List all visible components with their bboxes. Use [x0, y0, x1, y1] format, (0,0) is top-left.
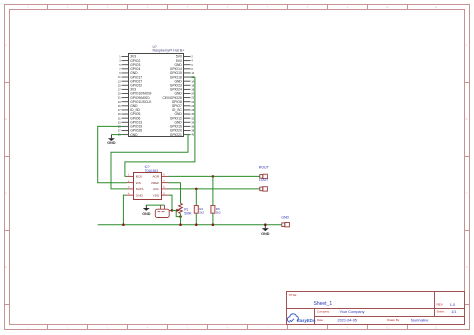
connector U? pin 17 3V3 — [118, 88, 136, 92]
svg-text:VDD: VDD — [153, 193, 160, 197]
op-amp IC? TDA1543 labels — [145, 165, 159, 173]
connector U? pin 39 GND — [118, 133, 138, 137]
wire VDD to wiper node — [169, 195, 173, 210]
svg-text:GND: GND — [142, 212, 151, 216]
wire AOR to ROUT — [169, 175, 260, 177]
connector U? pin 9 GND — [119, 71, 138, 75]
connector U? pin 33 GPIO13 — [118, 120, 142, 124]
connector U? pin 27 ID_SD — [118, 108, 141, 112]
svg-text:GND: GND — [107, 141, 116, 145]
svg-text:500K: 500K — [184, 212, 192, 216]
ground symbol on bus — [261, 225, 270, 237]
svg-text:GPIO7: GPIO7 — [172, 104, 182, 108]
svg-text:3V3: 3V3 — [130, 88, 136, 92]
jack J? pin 3 — [169, 209, 172, 211]
svg-text:GPIO23: GPIO23 — [170, 83, 182, 87]
svg-text:1.0: 1.0 — [450, 303, 455, 307]
connector LOUT pin — [260, 187, 268, 191]
svg-text:2k2: 2k2 — [216, 211, 221, 215]
jack J? pin 2 — [164, 205, 166, 209]
svg-text:ID_SD: ID_SD — [130, 108, 140, 112]
connector U? pin 16 GPIO23 — [170, 83, 195, 87]
title block Drawn By — [387, 318, 429, 322]
connector U? pin 38 GPIO20 — [170, 129, 195, 133]
svg-text:GPIO9/MISO: GPIO9/MISO — [130, 96, 150, 100]
wire IC GND to bus — [123, 195, 126, 225]
svg-text:GND: GND — [174, 120, 182, 124]
connector U? pin 35 GPIO19 — [118, 125, 142, 129]
svg-text:GPIO2: GPIO2 — [130, 59, 140, 63]
connector U? pin 29 GPIO5 — [118, 112, 141, 116]
connector U? pin 37 GPIO26 — [118, 129, 142, 133]
svg-text:GPIO3: GPIO3 — [130, 63, 140, 67]
junction ground symbol on bus — [264, 223, 267, 226]
svg-text:GND: GND — [130, 71, 138, 75]
connector U? RaspberryPi Hat B+ reference label — [153, 45, 185, 53]
svg-text:Date:: Date: — [317, 318, 324, 322]
connector U? pin 13 GPIO27 — [118, 79, 142, 83]
connector U? pin 26 GPIO7 — [172, 104, 195, 108]
junction wiper tie — [179, 215, 182, 218]
svg-text:ROUT: ROUT — [259, 166, 270, 170]
svg-text:LOUT: LOUT — [259, 178, 269, 182]
title block Date — [317, 318, 357, 322]
svg-text:ID_SC: ID_SC — [172, 108, 182, 112]
wire ground bus — [98, 224, 282, 226]
svg-text:GPIO18: GPIO18 — [170, 75, 182, 79]
svg-text:R5: R5 — [216, 207, 220, 211]
svg-text:GND: GND — [174, 79, 182, 83]
connector U? pin 32 GPIO12 — [170, 116, 195, 120]
svg-text:5V0: 5V0 — [176, 59, 182, 63]
svg-text:GPIO10/MOSI: GPIO10/MOSI — [130, 92, 151, 96]
IC? pin 1 BCK — [127, 174, 144, 179]
svg-text:GPIO6: GPIO6 — [130, 116, 140, 120]
svg-text:DATA: DATA — [136, 187, 145, 191]
junction VDD wiper node — [171, 209, 174, 212]
svg-text:GPIO15: GPIO15 — [170, 71, 182, 75]
svg-text:GPIO13: GPIO13 — [130, 120, 142, 124]
connector U? pin 10 GPIO15 — [170, 71, 195, 75]
svg-text:fourinaline: fourinaline — [411, 318, 429, 322]
svg-text:VREF: VREF — [151, 181, 159, 185]
IC? pin 8 AOR — [152, 174, 168, 179]
connector U? pin 28 ID_SC — [172, 108, 195, 112]
svg-text:GPIO11/SCLK: GPIO11/SCLK — [130, 100, 152, 104]
svg-text:2k2: 2k2 — [199, 211, 204, 215]
jack J? body — [155, 209, 169, 217]
IC? pin 4 GND — [127, 192, 144, 197]
svg-text:GPIO19: GPIO19 — [130, 125, 142, 129]
svg-text:R1: R1 — [184, 208, 188, 212]
svg-text:GPIO27: GPIO27 — [130, 79, 142, 83]
connector U? pin 15 GPIO22 — [118, 83, 142, 87]
EasyEDA logo — [287, 314, 315, 323]
IC? pin 3 DATA — [127, 186, 145, 191]
svg-text:CE0/GPIO25: CE0/GPIO25 — [163, 96, 182, 100]
connector U? pin 20 GND — [174, 92, 194, 96]
svg-text:REV:: REV: — [437, 303, 444, 307]
junction IC GND on bus — [122, 223, 125, 226]
junction R4 on bus — [195, 223, 198, 226]
connector U? pin 30 GND — [174, 112, 194, 116]
svg-text:GPIO12: GPIO12 — [170, 116, 182, 120]
title block REV — [437, 303, 456, 307]
svg-text:GPIO24: GPIO24 — [170, 88, 182, 92]
connector U? pin 36 GPIO16 — [170, 125, 195, 129]
svg-text:GND: GND — [130, 133, 138, 137]
ground symbol at jack — [142, 205, 151, 216]
IC? pin 2 WS — [127, 180, 141, 185]
svg-text:AOR: AOR — [152, 175, 159, 179]
svg-text:Sheet_1: Sheet_1 — [314, 301, 333, 307]
wire GPIO19 to IC WS — [98, 126, 127, 182]
svg-text:GND: GND — [174, 92, 182, 96]
svg-text:BCK: BCK — [136, 175, 143, 179]
svg-text:EasyEDA: EasyEDA — [297, 318, 316, 323]
svg-text:GPIO26: GPIO26 — [130, 129, 142, 133]
connector U? pin 18 GPIO24 — [170, 88, 195, 92]
svg-text:GND: GND — [136, 193, 144, 197]
resistor R5 2k2 — [211, 176, 221, 224]
connector U? body — [129, 54, 184, 137]
jack J? pin 1 — [160, 205, 162, 209]
title block Sheet — [437, 310, 457, 315]
IC? TDA1543 body — [134, 173, 162, 200]
frame row letters — [5, 43, 467, 269]
connector U? pin 12 GPIO18 — [170, 75, 195, 79]
wire GPIO21 to IC DATA — [111, 135, 191, 189]
svg-text:5V0: 5V0 — [176, 55, 182, 59]
wire jack sleeve to ground — [146, 204, 164, 206]
connector U? pin 4 5V0 — [176, 59, 193, 63]
svg-text:GPIO8: GPIO8 — [172, 100, 182, 104]
svg-text:GPIO5: GPIO5 — [130, 112, 140, 116]
svg-text:GPIO14: GPIO14 — [170, 67, 182, 71]
svg-text:3V3: 3V3 — [130, 55, 136, 59]
svg-text:WS: WS — [136, 181, 141, 185]
svg-text:GPIO4: GPIO4 — [130, 67, 140, 71]
svg-text:GND: GND — [174, 63, 182, 67]
connector U? pin 5 GPIO3 — [119, 63, 140, 67]
wire pin39 GND — [111, 134, 121, 136]
connector U? pin 8 GPIO14 — [170, 67, 194, 71]
title block border — [287, 292, 465, 325]
connector U? pin 14 GND — [174, 79, 194, 83]
IC? pin 5 VDD — [153, 192, 169, 197]
connector U? pin 6 GND — [174, 63, 193, 67]
junction R1 on bus — [179, 223, 182, 226]
connector U? pin 2 5V0 — [176, 55, 193, 59]
wire wiper tie to R1 bottom — [176, 210, 180, 216]
svg-text:AOL: AOL — [153, 187, 159, 191]
connector U? pin 19 GPIO10/MOSI — [118, 92, 152, 96]
svg-text:R4: R4 — [199, 207, 203, 211]
svg-text:1/1: 1/1 — [451, 310, 456, 314]
title block Company — [317, 310, 365, 315]
connector U? pin 23 GPIO11/SCLK — [118, 100, 152, 104]
connector U? pin 1 3V3 — [119, 55, 136, 59]
wire VREF to R1 — [169, 183, 181, 204]
junction R5 top — [212, 175, 215, 178]
connector ROUT pin — [260, 174, 268, 178]
resistor R1 potentiometer 500K — [179, 183, 193, 225]
svg-text:Your Company: Your Company — [340, 310, 365, 314]
connector U? pin 40 GPIO21 — [170, 133, 195, 137]
wire GPIO18 to IC BCK — [125, 77, 195, 176]
svg-text:GND: GND — [281, 215, 289, 219]
resistor R4 2k2 — [194, 189, 204, 225]
svg-text:RaspberryPi Hat B+: RaspberryPi Hat B+ — [153, 48, 185, 52]
svg-text:GND: GND — [130, 104, 138, 108]
svg-text:GPIO21: GPIO21 — [170, 133, 182, 137]
connector U? pin 3 GPIO2 — [119, 59, 140, 63]
svg-text:Sheet:: Sheet: — [437, 310, 445, 314]
wire wiper arrow into R1 — [172, 209, 180, 212]
ground symbol under connector — [107, 135, 116, 146]
connector GND pin — [282, 223, 290, 227]
connector U? pin 11 GPIO17 — [118, 75, 142, 79]
svg-text:GPIO16: GPIO16 — [170, 125, 182, 129]
connector U? pin 25 GND — [118, 104, 138, 108]
svg-text:2021-04-05: 2021-04-05 — [338, 318, 357, 322]
connector U? pin 7 GPIO4 — [119, 67, 140, 71]
wire AOL to LOUT — [169, 188, 260, 190]
connector U? pin 22 CE0/GPIO25 — [163, 96, 195, 100]
junction R4 top — [195, 188, 198, 191]
connector U? pin 34 GND — [174, 120, 194, 124]
connector U? pin 24 GPIO8 — [172, 100, 195, 104]
IC? pin 7 VREF — [151, 180, 169, 185]
IC? pin 6 AOL — [153, 186, 169, 191]
svg-text:TITLE:: TITLE: — [289, 293, 298, 297]
svg-text:Company:: Company: — [317, 310, 330, 314]
svg-text:GPIO22: GPIO22 — [130, 83, 142, 87]
svg-text:GND: GND — [174, 112, 182, 116]
junction R5 on bus — [212, 223, 215, 226]
svg-text:GPIO20: GPIO20 — [170, 129, 182, 133]
svg-text:GPIO17: GPIO17 — [130, 75, 142, 79]
connector U? pin 21 GPIO9/MISO — [118, 96, 150, 100]
svg-text:Drawn By:: Drawn By: — [387, 318, 400, 322]
svg-text:GND: GND — [261, 232, 270, 236]
connector U? pin 31 GPIO6 — [118, 116, 141, 120]
